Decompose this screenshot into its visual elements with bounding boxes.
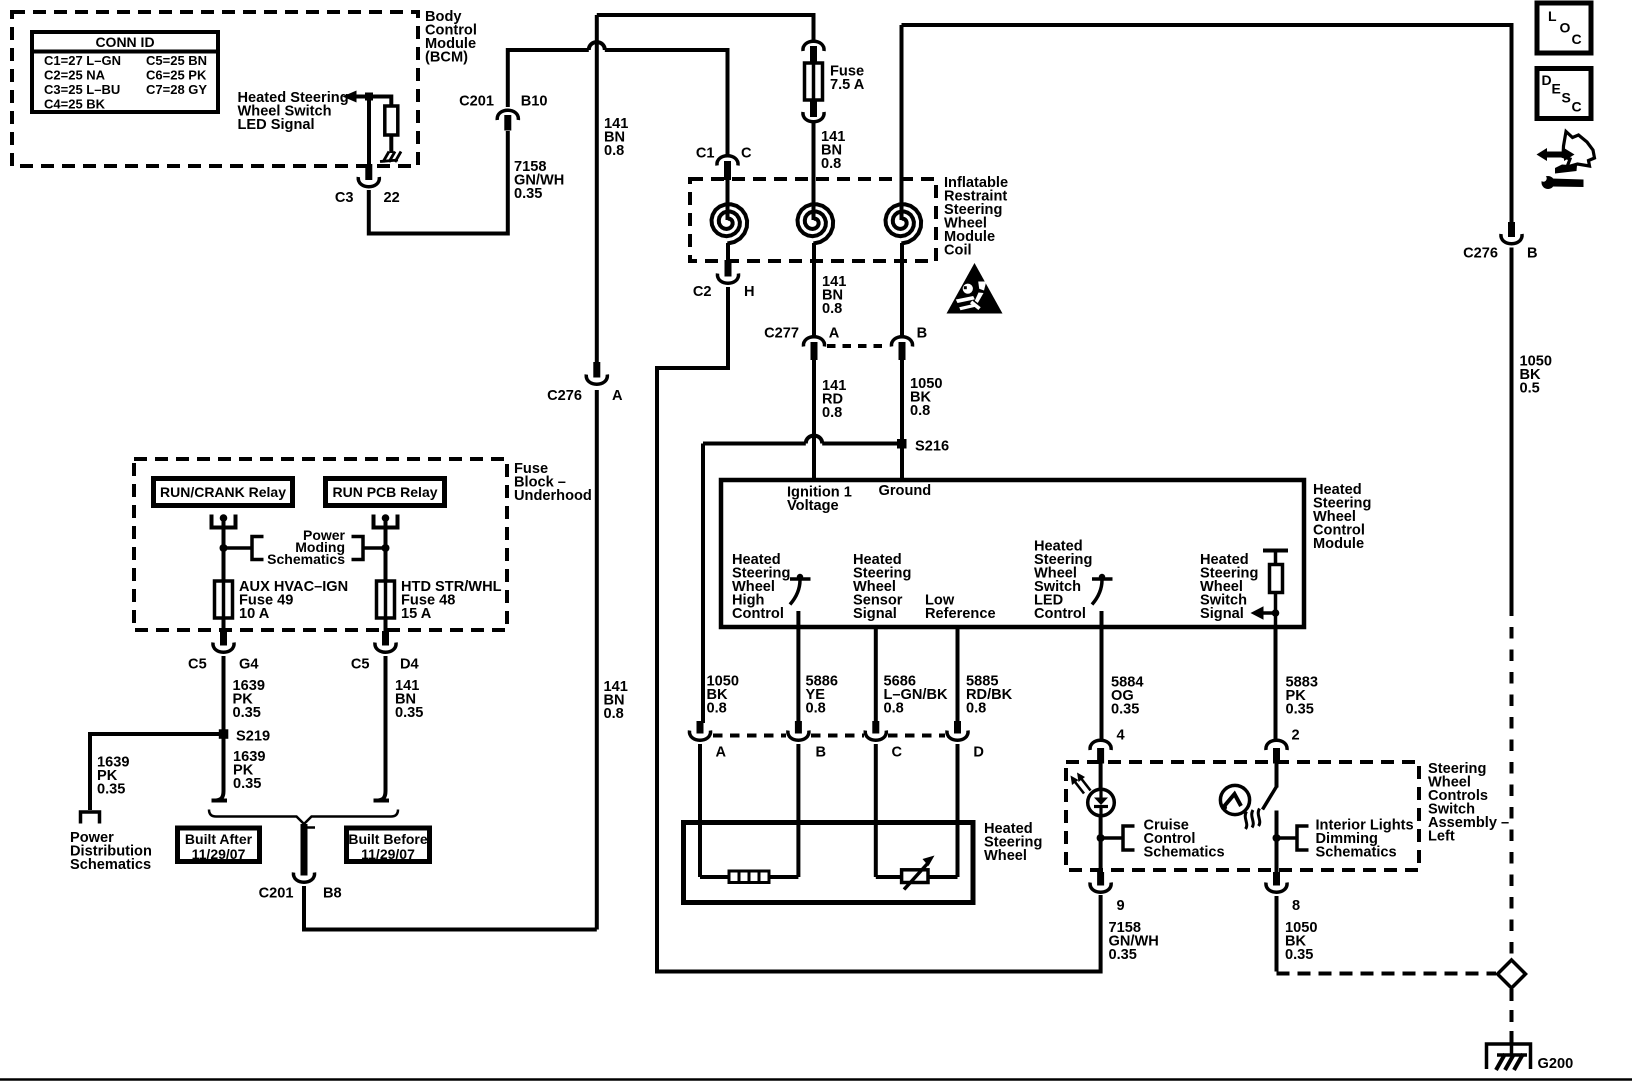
svg-text:C3: C3 [335, 190, 354, 206]
svg-text:C: C [892, 745, 903, 761]
connector C201 pin B8 [259, 824, 342, 902]
svg-text:Voltage: Voltage [787, 498, 839, 514]
resistor switch signal [1270, 565, 1283, 593]
svg-text:CONN ID: CONN ID [95, 34, 154, 50]
coil 2 [798, 204, 834, 243]
svg-text:B: B [917, 326, 928, 342]
connector C5 pin D4 [351, 631, 420, 673]
connector C1 pin C [696, 146, 752, 181]
CONN ID table [32, 32, 218, 112]
node power moding junction left [220, 544, 228, 552]
svg-text:S: S [1562, 90, 1571, 106]
svg-text:0.35: 0.35 [1286, 702, 1314, 718]
svg-text:11/29/07: 11/29/07 [361, 846, 415, 862]
svg-text:H: H [744, 284, 755, 300]
svg-text:(BCM): (BCM) [425, 50, 468, 66]
svg-text:7.5 A: 7.5 A [830, 77, 865, 93]
svg-text:Reference: Reference [925, 606, 996, 622]
wire 141 BN main vertical [595, 15, 599, 363]
node dimming junction [1273, 834, 1281, 842]
svg-text:L: L [1548, 8, 1557, 24]
wire fuse to coil 2 [812, 122, 816, 220]
connector C277 pin B [891, 326, 927, 361]
svg-text:Schematics: Schematics [267, 551, 345, 567]
coil 1 [726, 180, 730, 220]
wire relay to fuse 48 [384, 518, 388, 581]
node BCM junction [365, 93, 373, 101]
icon DESC [1537, 69, 1591, 119]
pull-up bar [1263, 549, 1288, 553]
fuse 7.5A holder top clip [803, 41, 824, 51]
wire low reference to D [956, 625, 960, 723]
wire fuse 49 down [222, 618, 226, 632]
svg-text:Signal: Signal [1200, 606, 1244, 622]
svg-text:C2: C2 [693, 284, 712, 300]
svg-text:2: 2 [1292, 728, 1300, 744]
svg-text:C: C [1572, 99, 1582, 115]
wire 1639 PK down [214, 656, 224, 801]
svg-text:9: 9 [1117, 898, 1125, 914]
svg-text:LED Signal: LED Signal [238, 117, 315, 133]
svg-text:D: D [973, 745, 984, 761]
interior lights reference bracket [1277, 836, 1297, 840]
wires into heated steering wheel [698, 744, 702, 877]
Steering Wheel Controls Switch Assembly dashed box [1066, 762, 1419, 870]
fuse holder bottom clip [803, 112, 824, 122]
svg-text:0.35: 0.35 [233, 776, 261, 792]
svg-text:0.35: 0.35 [233, 705, 261, 721]
svg-text:Ground: Ground [879, 483, 932, 499]
svg-text:Underhood: Underhood [514, 488, 592, 504]
icon wrench/arrow [1537, 132, 1595, 190]
svg-text:Schematics: Schematics [70, 857, 151, 873]
icon LOC [1537, 3, 1591, 53]
wire LED control to pin 4 [1100, 611, 1104, 741]
relay RUN/CRANK box [154, 479, 293, 506]
wire top right 1050 run [902, 25, 1512, 223]
svg-text:E: E [1552, 81, 1561, 97]
LED arrows [1074, 777, 1091, 794]
svg-text:Control: Control [1034, 606, 1086, 622]
power moding bracket left [224, 546, 251, 550]
svg-text:C: C [1572, 31, 1582, 47]
warning triangle icon [947, 263, 1003, 314]
arrow to Signal label [1262, 611, 1277, 615]
svg-text:Coil: Coil [944, 243, 972, 259]
coil 3 [900, 25, 904, 220]
svg-text:0.35: 0.35 [1109, 947, 1137, 963]
svg-text:C201: C201 [459, 94, 494, 110]
svg-text:0.8: 0.8 [806, 701, 826, 717]
LED cruise switch [1099, 762, 1103, 790]
connector C5 pin G4 [188, 631, 259, 673]
svg-text:A: A [716, 745, 727, 761]
build option brace [209, 810, 398, 825]
fuse 7.5A body [805, 63, 823, 100]
svg-text:C5: C5 [188, 657, 207, 673]
svg-text:0.8: 0.8 [884, 701, 904, 717]
relay RUN/CRANK contact [210, 514, 238, 527]
svg-text:Schematics: Schematics [1316, 845, 1397, 861]
svg-text:RUN/CRANK Relay: RUN/CRANK Relay [160, 484, 286, 500]
wire BCM internal [356, 97, 391, 107]
connector pin 9 [1090, 872, 1125, 914]
thermistor [876, 875, 902, 879]
svg-text:C5=25 BN: C5=25 BN [146, 53, 207, 68]
connector pin 8 [1266, 872, 1300, 914]
connector C277 pin A [764, 326, 840, 361]
wire switch signal to pin 2 [1274, 627, 1278, 741]
svg-text:G4: G4 [239, 657, 259, 673]
splice diamond [1498, 960, 1526, 988]
heat waves [1245, 809, 1260, 830]
heater element [700, 875, 729, 879]
fuse 49 AUX HVAC-IGN [215, 581, 233, 618]
svg-text:Schematics: Schematics [1144, 845, 1225, 861]
svg-text:0.8: 0.8 [707, 701, 727, 717]
svg-text:B: B [816, 745, 827, 761]
ground G200 [1487, 1044, 1574, 1072]
connector C2 pin H [693, 260, 755, 300]
connector C276 pin A [547, 362, 623, 404]
connector row A B C D [689, 721, 984, 761]
svg-text:Wheel: Wheel [984, 848, 1027, 864]
svg-text:C6=25 PK: C6=25 PK [146, 68, 207, 83]
node S216 [897, 439, 907, 449]
svg-text:Signal: Signal [853, 606, 897, 622]
wire dashed ground run [1510, 605, 1514, 960]
svg-text:22: 22 [384, 190, 400, 206]
C277 dashed tie [827, 344, 887, 348]
connector pin 4 [1090, 728, 1125, 764]
bottom border [0, 1078, 1632, 1081]
cruise control reference bracket [1101, 836, 1123, 840]
fuse pin top [810, 46, 817, 63]
Heated Steering Wheel box [684, 823, 974, 903]
svg-text:0.35: 0.35 [395, 705, 423, 721]
svg-text:8: 8 [1292, 898, 1300, 914]
lamp dimmer switch [1275, 762, 1279, 788]
svg-text:4: 4 [1117, 728, 1126, 744]
svg-text:10 A: 10 A [239, 606, 270, 622]
wire C3 to C201 [369, 131, 508, 234]
svg-text:Control: Control [732, 606, 784, 622]
wire 1050 BK 0.5 down [1510, 248, 1514, 605]
svg-text:0.8: 0.8 [822, 301, 842, 317]
svg-text:C5: C5 [351, 657, 370, 673]
wire 7158 GN/WH long run C2 to pin 9 [657, 287, 1101, 972]
svg-text:0.8: 0.8 [966, 701, 986, 717]
Fuse Block Underhood dashed box [134, 459, 507, 630]
svg-text:0.35: 0.35 [514, 186, 542, 202]
relay RUN PCB box [326, 479, 445, 506]
wire lamp to junction [1275, 811, 1279, 875]
BCM output arrow [343, 91, 357, 103]
wire relay to fuse 49 [222, 518, 226, 581]
Built Before box [347, 828, 430, 862]
svg-text:Module: Module [1313, 536, 1364, 552]
svg-text:0.8: 0.8 [604, 706, 624, 722]
wire B8 to 141 BN main [304, 886, 597, 930]
ground BCM internal [380, 152, 401, 163]
wire high control to B [796, 611, 800, 723]
wire 141 BN down [376, 656, 386, 801]
svg-text:C: C [741, 146, 752, 162]
connector C201 pin B10 [459, 94, 547, 131]
connector C3 pin 22 [335, 164, 400, 206]
wire 7158 GN/WH: C201 up, across to C1 (hop over 141 BN at x=596.8) [508, 50, 589, 107]
svg-text:11/29/07: 11/29/07 [192, 846, 246, 862]
wire 141 BN top run [597, 15, 814, 42]
Built After box [178, 828, 260, 862]
wire LED signal down [367, 97, 371, 167]
power moding bracket right [352, 537, 364, 560]
svg-text:C277: C277 [764, 326, 799, 342]
svg-text:0.35: 0.35 [1285, 947, 1313, 963]
wire dashed to G200 [1510, 989, 1514, 1043]
wire S219 branch to power distribution [90, 734, 224, 810]
svg-text:15 A: 15 A [401, 606, 432, 622]
svg-text:G200: G200 [1538, 1056, 1574, 1072]
svg-text:0.8: 0.8 [822, 405, 842, 421]
svg-text:C3=25 L–BU: C3=25 L–BU [44, 82, 120, 97]
svg-text:C201: C201 [259, 886, 294, 902]
svg-text:0.35: 0.35 [1111, 702, 1139, 718]
fuse pin bottom [810, 100, 817, 117]
fuse 48 HTD STR/WHL [377, 581, 395, 618]
node S219 [219, 729, 229, 739]
connector C276 pin B [1463, 222, 1537, 262]
svg-text:B: B [1527, 246, 1538, 262]
svg-text:C7=28 GY: C7=28 GY [146, 82, 207, 97]
svg-text:0.8: 0.8 [910, 403, 930, 419]
svg-text:Built Before: Built Before [348, 831, 428, 847]
svg-text:0.5: 0.5 [1520, 381, 1540, 397]
power distribution bracket [81, 812, 100, 824]
svg-text:0.8: 0.8 [821, 156, 841, 172]
svg-text:0.35: 0.35 [97, 782, 125, 798]
wire ground branch S216 to heater return (hop over 141 RD) [703, 442, 806, 446]
node cruise junction [1097, 834, 1105, 842]
svg-text:Left: Left [1428, 829, 1455, 845]
svg-text:C276: C276 [1463, 246, 1498, 262]
svg-text:C1: C1 [696, 146, 715, 162]
wire pin 8 to dashed ground [1275, 896, 1279, 972]
svg-text:C1=27 L–GN: C1=27 L–GN [44, 53, 121, 68]
node power moding junction right [382, 544, 390, 552]
svg-text:C4=25 BK: C4=25 BK [44, 97, 106, 112]
svg-text:RUN PCB Relay: RUN PCB Relay [332, 484, 437, 500]
wire LED to junction [1099, 816, 1103, 874]
svg-text:A: A [829, 326, 840, 342]
wire fuse 48 down [384, 618, 388, 632]
resistor BCM internal [385, 106, 398, 135]
svg-text:D: D [1542, 72, 1552, 88]
svg-text:C2=25 NA: C2=25 NA [44, 68, 106, 83]
svg-text:0.8: 0.8 [604, 143, 624, 159]
svg-text:B10: B10 [521, 94, 548, 110]
svg-text:B8: B8 [323, 886, 342, 902]
connector pin 2 [1266, 728, 1300, 764]
svg-text:Built After: Built After [185, 831, 253, 847]
svg-text:C276: C276 [547, 388, 582, 404]
wire 1050 BK to S216 and module [900, 360, 904, 478]
relay RUN PCB contact [372, 514, 400, 527]
svg-text:S219: S219 [236, 729, 270, 745]
svg-text:O: O [1560, 20, 1571, 36]
BCM dashed box [12, 12, 418, 166]
wire [389, 135, 393, 153]
wire 141 RD to module [812, 360, 816, 478]
Heated Steering Wheel Control Module box [721, 480, 1304, 627]
svg-text:A: A [612, 388, 623, 404]
wire sensor signal to C [874, 625, 878, 723]
coil box dashed (Inflatable Restraint Steering Wheel Module Coil) [690, 179, 936, 261]
svg-text:D4: D4 [400, 657, 420, 673]
svg-text:S216: S216 [915, 439, 949, 455]
